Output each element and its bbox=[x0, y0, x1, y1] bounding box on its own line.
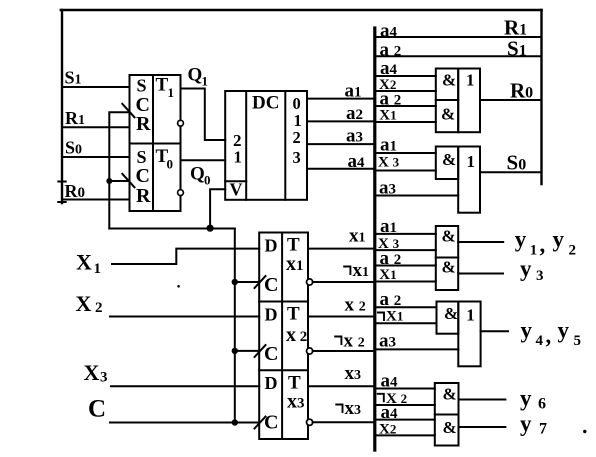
wire clock vertical to T flip-flops bbox=[234, 229, 236, 423]
wire C1 stub bbox=[235, 281, 259, 283]
svg-text:2: 2 bbox=[293, 128, 301, 147]
svg-text:0: 0 bbox=[293, 94, 301, 113]
wire y7 output bbox=[459, 426, 506, 428]
svg-text:y: y bbox=[520, 386, 532, 411]
net label not-X2 group C bbox=[377, 394, 384, 403]
dynamic input slash C of T1 bbox=[122, 104, 134, 118]
OR gate U9 box bbox=[458, 302, 480, 367]
svg-text:a1: a1 bbox=[380, 135, 397, 156]
OR gate U3 box bbox=[458, 69, 480, 133]
svg-text:a4: a4 bbox=[381, 402, 399, 423]
wire x2 output to bus bbox=[308, 316, 374, 318]
dynamic input slash C of T0 bbox=[122, 174, 134, 188]
wire a1 input to AND U4 bbox=[376, 152, 435, 154]
svg-text:y: y bbox=[520, 256, 532, 281]
wire C input to clock junction bbox=[110, 422, 259, 424]
flip-flop block T1/T0 outline bbox=[130, 75, 181, 211]
dynamic input slash C of Tx1 bbox=[255, 276, 266, 288]
svg-text:0: 0 bbox=[204, 173, 211, 188]
svg-text:a3: a3 bbox=[379, 331, 396, 352]
inverted output bubble Tx3 bbox=[307, 419, 313, 425]
svg-text:0: 0 bbox=[167, 157, 174, 172]
svg-text:C: C bbox=[264, 343, 278, 365]
AND U6/U7 divider bbox=[436, 257, 458, 259]
decoder divider left bbox=[245, 91, 247, 200]
T flip-flop block outline bbox=[259, 233, 308, 440]
wire y6 output bbox=[459, 399, 506, 401]
svg-text:1: 1 bbox=[234, 148, 243, 167]
svg-text:S: S bbox=[137, 147, 147, 167]
wire R0 output bbox=[480, 99, 542, 101]
svg-text:Q: Q bbox=[188, 65, 203, 86]
svg-text:X: X bbox=[76, 249, 92, 274]
svg-text:C: C bbox=[264, 274, 278, 296]
svg-text:6: 6 bbox=[538, 395, 546, 412]
inverted output bubble T0 bbox=[178, 190, 184, 196]
svg-text:D: D bbox=[265, 373, 278, 393]
wire decoder output 2 (a3) bbox=[307, 143, 374, 145]
wire X2 input to AND U1 bbox=[376, 90, 435, 92]
node R0 input wire bbox=[62, 199, 130, 201]
wire a2 input to AND U2 bbox=[376, 105, 435, 107]
wire a2 input to AND U7 bbox=[376, 265, 435, 267]
wire a4 input to AND U1 bbox=[376, 75, 435, 77]
wire a1 input to AND U6 bbox=[376, 233, 435, 235]
svg-text:1: 1 bbox=[467, 152, 476, 171]
svg-text:S: S bbox=[137, 76, 147, 96]
svg-text:a1: a1 bbox=[345, 80, 362, 101]
svg-text:C: C bbox=[264, 412, 278, 434]
svg-text:D: D bbox=[265, 235, 278, 255]
tick at left rail end bbox=[58, 201, 65, 203]
wire decoder output 3 (a4) bbox=[307, 168, 374, 170]
svg-text:3: 3 bbox=[293, 148, 301, 167]
svg-text:y: y bbox=[520, 411, 532, 436]
wire X1 input with jog to D of Tx1 bbox=[112, 249, 259, 264]
wire a2 to S1 feedback bbox=[375, 55, 542, 57]
junction dot C of T0 bbox=[106, 178, 112, 184]
AND U10/U11 divider bbox=[435, 414, 459, 416]
wire X3 input to AND U6 bbox=[376, 249, 435, 251]
bus trunk vertical bbox=[373, 28, 376, 450]
svg-text:,: , bbox=[540, 232, 546, 257]
wire X1 input to AND U2 bbox=[376, 121, 435, 123]
svg-text:&: & bbox=[442, 150, 456, 169]
svg-text:1: 1 bbox=[294, 111, 302, 130]
node S1 input wire bbox=[62, 86, 130, 88]
svg-text:3: 3 bbox=[536, 268, 544, 284]
junction dot clock main bbox=[207, 225, 214, 232]
AND gate U4 box bbox=[436, 147, 458, 180]
svg-text:4: 4 bbox=[536, 333, 544, 349]
AND gate U6/U7 box bbox=[436, 226, 458, 290]
svg-text:1: 1 bbox=[202, 74, 209, 89]
wire a3 input to OR U9 bbox=[376, 348, 458, 350]
OR gate U5 box bbox=[458, 147, 480, 213]
wire X3 input to D of Tx3 bbox=[111, 385, 259, 387]
net label not-X1 group B bbox=[377, 313, 384, 322]
wire not-x1 output to bus bbox=[313, 281, 374, 283]
wire X3 input to AND U4 bbox=[376, 170, 435, 172]
net label not-x2 bbox=[334, 337, 341, 346]
flip-flop block divider horizontal bbox=[130, 143, 181, 145]
svg-text:1: 1 bbox=[94, 261, 102, 277]
wire clock vertical C of T1 to C of T0 bbox=[109, 112, 129, 228]
junction dot C3 bbox=[232, 419, 238, 425]
wire not-X2 input to AND U10 bbox=[376, 404, 434, 406]
wire not-x3 output to bus bbox=[313, 421, 374, 423]
wire a2 input to AND U8 bbox=[376, 306, 436, 308]
svg-text:X1: X1 bbox=[386, 308, 403, 324]
decoder V cell line bbox=[225, 180, 246, 182]
wire C2 stub bbox=[235, 350, 259, 352]
wire decoder output 1 (a2) bbox=[307, 120, 374, 122]
inverted output bubble Tx2 bbox=[307, 348, 313, 354]
wire y1,y2 output bbox=[458, 241, 503, 243]
decoder DC outline bbox=[225, 91, 307, 200]
wire C of T0 stub bbox=[109, 180, 129, 182]
AND U1/U2 divider bbox=[436, 99, 458, 101]
wire y3 output bbox=[458, 273, 503, 275]
svg-text:a4: a4 bbox=[348, 151, 366, 172]
wire riser to decoder V input bbox=[210, 189, 225, 228]
svg-text:Q: Q bbox=[190, 164, 205, 185]
net label not-x3 bbox=[335, 405, 342, 414]
inverted output bubble Tx1 bbox=[307, 279, 313, 285]
svg-text:1: 1 bbox=[168, 85, 175, 100]
wire a4 input to AND U10 bbox=[376, 388, 434, 390]
svg-text:&: & bbox=[443, 384, 457, 403]
AND gate U8 box bbox=[437, 302, 459, 334]
wire Q1 to decoder input 2 bbox=[181, 89, 226, 141]
svg-text:X2: X2 bbox=[379, 421, 396, 437]
svg-text:a 2: a 2 bbox=[380, 289, 402, 310]
svg-text:X1: X1 bbox=[379, 107, 396, 123]
svg-text:1: 1 bbox=[466, 306, 475, 325]
svg-text:y: y bbox=[558, 318, 570, 343]
wire a4 to R1 feedback bbox=[375, 36, 542, 38]
node S0 input wire bbox=[62, 156, 130, 158]
svg-text:,: , bbox=[546, 323, 552, 348]
stray dot bottom right bbox=[583, 430, 586, 433]
svg-text:a 2: a 2 bbox=[380, 88, 402, 109]
svg-text:a 2: a 2 bbox=[380, 248, 402, 269]
svg-text:a3: a3 bbox=[346, 125, 363, 146]
decoder divider right bbox=[284, 91, 286, 200]
node R1 input wire bbox=[62, 126, 130, 128]
svg-text:a1: a1 bbox=[380, 216, 397, 237]
svg-text:R: R bbox=[136, 113, 151, 135]
svg-text:a4: a4 bbox=[380, 21, 398, 42]
T flip-flop divider section 1/2 bbox=[259, 301, 308, 303]
svg-text:DC: DC bbox=[252, 93, 279, 114]
wire X1 input to AND U7 bbox=[376, 281, 435, 283]
svg-text:y: y bbox=[515, 227, 527, 252]
svg-text:2: 2 bbox=[569, 243, 577, 259]
T flip-flop divider vertical bbox=[281, 233, 283, 440]
svg-text:C: C bbox=[136, 165, 150, 187]
wire left feedback rail bbox=[61, 10, 63, 203]
dynamic input slash C of Tx2 bbox=[255, 345, 266, 357]
wire top feedback line bbox=[61, 9, 542, 12]
svg-text:&: & bbox=[442, 258, 456, 277]
wire X2 input to D of Tx2 bbox=[110, 316, 259, 318]
wire y4,y5 output bbox=[481, 330, 508, 332]
dynamic input slash C of Tx3 bbox=[255, 417, 266, 429]
svg-text:1: 1 bbox=[466, 71, 475, 90]
inverted output bubble T1 bbox=[178, 120, 184, 126]
wire Q0 to decoder input 1 bbox=[181, 159, 226, 161]
svg-text:R: R bbox=[136, 185, 151, 207]
svg-text:X 3: X 3 bbox=[378, 154, 400, 170]
svg-text:D: D bbox=[265, 304, 278, 324]
stray dot left of T block bbox=[177, 285, 180, 288]
wire X2 input to AND U11 bbox=[376, 434, 434, 436]
wire right feedback rail bbox=[540, 10, 542, 184]
svg-text:&: & bbox=[444, 304, 458, 323]
wire x3 output to bus bbox=[308, 385, 374, 387]
T flip-flop divider section 2/3 bbox=[259, 369, 308, 371]
wire a3 input to OR U5 bbox=[376, 195, 458, 197]
AND gate U10/U11 box bbox=[435, 383, 459, 446]
wire S0 output bbox=[480, 171, 542, 173]
junction dot C2 bbox=[232, 348, 238, 354]
svg-text:y: y bbox=[521, 318, 533, 343]
svg-text:y: y bbox=[553, 227, 565, 252]
svg-text:3: 3 bbox=[100, 370, 108, 386]
svg-text:X: X bbox=[76, 291, 92, 316]
svg-text:&: & bbox=[441, 105, 455, 124]
svg-text:a2: a2 bbox=[346, 103, 363, 124]
wire clock horizontal run bbox=[109, 228, 235, 230]
wire decoder output 0 (a1) bbox=[307, 98, 374, 100]
wire x1 output to bus bbox=[308, 248, 374, 250]
svg-text:7: 7 bbox=[539, 420, 547, 437]
svg-text:a3: a3 bbox=[379, 177, 396, 198]
wire not-X1 input to AND U8 bbox=[376, 322, 436, 324]
svg-text:&: & bbox=[443, 418, 457, 437]
svg-text:C: C bbox=[88, 395, 106, 422]
AND gate U1/U2 box bbox=[436, 69, 458, 133]
wire a4 input to AND U11 bbox=[376, 419, 434, 421]
svg-text:X1: X1 bbox=[379, 267, 396, 283]
net label not-x1 bbox=[343, 267, 350, 276]
wire not-x2 output to bus bbox=[313, 350, 374, 352]
junction dot C1 bbox=[232, 279, 238, 285]
svg-text:&: & bbox=[442, 227, 456, 246]
tick on left rail bbox=[58, 181, 65, 183]
svg-text:X: X bbox=[84, 360, 100, 385]
svg-text:T: T bbox=[287, 304, 300, 325]
svg-text:&: & bbox=[442, 71, 456, 90]
svg-text:2: 2 bbox=[95, 300, 103, 316]
svg-text:5: 5 bbox=[574, 333, 582, 349]
svg-text:a4: a4 bbox=[381, 371, 399, 392]
svg-text:V: V bbox=[230, 180, 243, 200]
flip-flop block divider vertical bbox=[152, 75, 154, 211]
